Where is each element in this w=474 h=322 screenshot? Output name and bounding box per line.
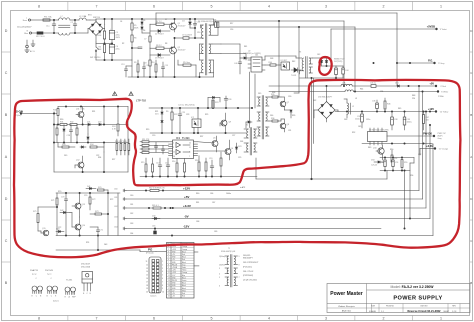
svg-text:C7: C7 — [144, 39, 146, 41]
node +5V a — [429, 82, 445, 88]
cap C71 — [90, 227, 103, 236]
svg-text:TL431: TL431 — [291, 75, 296, 77]
svg-text:L7: L7 — [61, 16, 63, 18]
svg-text:Q10: Q10 — [373, 148, 377, 150]
cap C35 on +5V rail — [370, 82, 376, 87]
vertical parts row — [56, 125, 89, 143]
svg-text:TL494: TL494 — [182, 136, 190, 140]
svg-text:Q12: Q12 — [76, 160, 80, 162]
cap C15 — [161, 62, 168, 77]
startup IC U2 — [248, 57, 265, 72]
svg-text:+5V: +5V — [429, 82, 434, 86]
svg-text:11: 11 — [168, 272, 170, 274]
resistor R24 — [112, 121, 119, 136]
svg-text:C8: C8 — [144, 63, 146, 65]
choke L1A — [341, 82, 436, 87]
red annotation loop (hand drawn marker) — [14, 80, 460, 257]
svg-text:R37: R37 — [200, 136, 203, 138]
snubber D7 — [215, 22, 219, 28]
115/230V selector SW1 — [90, 47, 100, 60]
diode D34 — [371, 160, 383, 167]
svg-text:C36: C36 — [372, 101, 375, 103]
svg-text:14: 14 — [168, 280, 170, 282]
svg-text:R16: R16 — [172, 161, 175, 163]
svg-text:Q15: Q15 — [42, 228, 46, 230]
svg-text:PS-ON: PS-ON — [172, 280, 177, 282]
sec resistor R36 — [269, 118, 281, 122]
svg-text:1: 1 — [168, 246, 169, 248]
cap C65 on -12V — [152, 226, 156, 235]
svg-text:4: 4 — [268, 5, 270, 9]
svg-text:C28: C28 — [67, 135, 70, 137]
PW-OK output wire — [387, 132, 447, 141]
svg-text:R22: R22 — [174, 114, 177, 116]
svg-text:10: 10 — [162, 292, 164, 294]
svg-text:L2: L2 — [352, 106, 354, 108]
wire +5VSB — [331, 28, 437, 30]
svg-text:D40: D40 — [152, 216, 155, 218]
svg-text:Q7,Q8: 2SC4106: Q7,Q8: 2SC4106 — [243, 280, 257, 282]
svg-text:ZD1: ZD1 — [155, 114, 159, 116]
svg-text:220: 220 — [412, 98, 415, 100]
svg-text:12: 12 — [189, 143, 191, 145]
svg-text:PG: PG — [148, 248, 153, 252]
wire rail D — [221, 54, 246, 60]
svg-text:12: 12 — [168, 275, 170, 277]
svg-text:C62: C62 — [114, 206, 117, 208]
mid node wire to voltage selector — [96, 42, 112, 47]
svg-text:R17: R17 — [230, 23, 233, 25]
svg-text:R18: R18 — [195, 160, 198, 162]
sec transistor Q7 — [280, 97, 289, 110]
svg-text:P.G.: P.G. — [428, 59, 433, 63]
svg-text:p-n-p: p-n-p — [32, 274, 36, 276]
svg-text:'11' Orange: '11' Orange — [439, 148, 449, 151]
wire pg left branch — [38, 206, 58, 207]
svg-text:R45: R45 — [398, 108, 401, 110]
svg-text:3: 3 — [325, 5, 327, 9]
svg-text:D22: D22 — [98, 122, 101, 124]
snubber diode D4 — [182, 18, 195, 28]
svg-text:to ATX: to ATX — [240, 186, 246, 189]
T2 coupling diodes D25 — [246, 121, 252, 128]
svg-text:1: 1 — [440, 317, 442, 321]
svg-text:1(Blue): 1(Blue) — [219, 256, 225, 258]
svg-text:D23: D23 — [238, 146, 241, 148]
rail -5V — [114, 217, 430, 221]
rail sec top — [269, 85, 345, 86]
svg-text:D34: D34 — [371, 160, 374, 162]
svg-text:R7 2.2: R7 2.2 — [156, 21, 162, 23]
svg-text:Brwn: Brwn — [23, 19, 27, 22]
svg-text:C50: C50 — [380, 162, 383, 164]
svg-text:C60: C60 — [130, 195, 133, 197]
svg-text:C18: C18 — [165, 163, 168, 165]
svg-text:Q7: Q7 — [287, 102, 290, 104]
svg-text:'6' White: '6' White — [441, 91, 448, 94]
svg-text:R8 2.2: R8 2.2 — [156, 45, 162, 47]
svg-text:R60: R60 — [196, 193, 199, 195]
svg-text:C34: C34 — [380, 91, 383, 93]
svg-text:-5V: -5V — [184, 214, 189, 218]
svg-text:SW 115/230: SW 115/230 — [90, 57, 100, 59]
svg-text:2200u: 2200u — [355, 119, 360, 121]
svg-text:C41: C41 — [255, 55, 258, 57]
diode D20 — [207, 96, 220, 108]
svg-text:IC1: IC1 — [176, 136, 181, 140]
warning triangle 2 — [129, 92, 133, 96]
diode D40 on -5V — [152, 216, 160, 220]
svg-text:D15: D15 — [258, 93, 261, 95]
svg-text:220u: 220u — [116, 49, 120, 51]
svg-text:17: 17 — [146, 281, 148, 283]
transistor Q12 — [75, 156, 84, 172]
svg-text:1: 1 — [162, 261, 163, 263]
svg-text:Red: Red — [182, 296, 185, 298]
svg-text:+12V: +12V — [183, 186, 190, 190]
transistor Q13 — [72, 192, 85, 217]
svg-text:R27: R27 — [112, 159, 115, 161]
mid rail — [150, 132, 246, 133]
dummy resistor R47 — [423, 112, 429, 131]
svg-text:R31: R31 — [60, 122, 63, 124]
standby transformer T3 — [299, 52, 313, 79]
PG node — [146, 244, 173, 255]
snubber cap C40 — [234, 58, 242, 74]
svg-text:Q6: Q6 — [231, 148, 234, 150]
diode D14 on +5V rail — [395, 82, 409, 87]
transistor Q1 2SC3027 — [170, 18, 186, 32]
main transformer T1 — [198, 19, 215, 78]
svg-text:110-220(230)V: 110-220(230)V — [17, 27, 32, 29]
T1 right side stubs to long rails — [212, 21, 221, 77]
svg-text:TL431: TL431 — [66, 280, 73, 282]
resistor R9 — [134, 60, 139, 78]
svg-text:2: 2 — [162, 264, 163, 266]
svg-text:(F12C20C): (F12C20C) — [243, 266, 252, 268]
svg-text:R75: R75 — [33, 211, 36, 213]
svg-text:Black: Black — [182, 285, 186, 287]
svg-text:U2: U2 — [248, 51, 250, 53]
svg-text:R34: R34 — [98, 157, 101, 159]
wiring legend text — [243, 255, 259, 282]
svg-text:C15: C15 — [165, 65, 168, 67]
diode D44 — [56, 229, 64, 233]
svg-text:D43: D43 — [104, 244, 107, 246]
junction +5V wire dots — [373, 62, 411, 63]
svg-text:R44: R44 — [360, 89, 363, 91]
svg-text:2: 2 — [383, 317, 385, 321]
drive transformer T2 — [244, 125, 257, 156]
resistor R51 — [383, 150, 398, 165]
svg-text:D3 FR107: D3 FR107 — [155, 58, 164, 60]
svg-text:D27(D29): D27(D29) — [334, 61, 343, 63]
svg-text:R61: R61 — [196, 202, 199, 204]
svg-text:C9 1u/250V: C9 1u/250V — [182, 35, 193, 37]
filter cap C37 — [355, 112, 363, 129]
pg bottom rail junctions — [79, 235, 80, 236]
svg-text:5: 5 — [219, 277, 220, 279]
feedback parts R/C — [265, 62, 281, 66]
cap C26 — [224, 96, 231, 108]
node +5V b — [437, 91, 448, 94]
bleeder resistor R4 — [97, 43, 106, 60]
svg-text:D6: D6 — [143, 30, 145, 32]
diode D41 — [86, 186, 96, 190]
zener ZD2 — [161, 121, 163, 134]
svg-text:20: 20 — [168, 296, 170, 298]
svg-text:C10: C10 — [197, 32, 200, 34]
svg-text:L3: L3 — [355, 98, 357, 100]
svg-text:4: 4 — [162, 271, 163, 273]
svg-text:C38: C38 — [394, 119, 397, 121]
svg-text:Black: Black — [182, 288, 186, 290]
wire rail C to 5VSB — [221, 44, 240, 58]
svg-text:15: 15 — [173, 152, 175, 154]
svg-text:D1: D1 — [84, 16, 86, 18]
svg-text:2SC3027: 2SC3027 — [178, 26, 186, 28]
svg-text:Q11 C945: Q11 C945 — [76, 109, 84, 111]
half bridge mid node — [174, 37, 183, 38]
svg-text:C63: C63 — [114, 217, 117, 219]
svg-text:A: A — [470, 155, 472, 159]
svg-text:6: 6 — [153, 317, 155, 321]
svg-text:13: 13 — [146, 268, 148, 270]
NTC thermistor THR1 — [32, 32, 59, 38]
svg-text:C31: C31 — [288, 130, 291, 132]
svg-text:C30: C30 — [288, 96, 291, 98]
svg-text:C44: C44 — [345, 70, 348, 72]
transistor Q9 — [220, 113, 231, 133]
svg-text:C1u: C1u — [46, 26, 49, 28]
svg-text:1000u: 1000u — [226, 193, 231, 195]
svg-text:R3: R3 — [99, 33, 101, 35]
svg-text:NTC 5D-9: NTC 5D-9 — [36, 36, 45, 38]
svg-text:10: 10 — [168, 270, 170, 272]
rail +12V — [114, 189, 419, 193]
minus rail top wire — [380, 157, 414, 158]
svg-text:8: 8 — [239, 264, 240, 266]
svg-text:R56: R56 — [410, 175, 413, 177]
svg-text:PW-OK: PW-OK — [423, 132, 432, 136]
rail -12V — [114, 227, 381, 231]
secondary return verticals — [311, 78, 314, 180]
node PS-ON — [14, 110, 58, 118]
node +3.3V — [420, 144, 448, 150]
package drawing 2SC3027 TO-220 — [81, 264, 93, 296]
svg-text:POWER SUPPLY: POWER SUPPLY — [393, 296, 442, 302]
svg-text:3: 3 — [219, 268, 220, 270]
svg-text:14: 14 — [146, 271, 148, 273]
svg-text:C25: C25 — [182, 112, 185, 114]
svg-text:2SC3027: 2SC3027 — [81, 264, 91, 266]
svg-text:R48: R48 — [412, 95, 415, 97]
wire sec feed F — [294, 26, 300, 93]
svg-text:DWG NO: DWG NO — [420, 306, 428, 308]
ground rail secondary — [362, 143, 430, 144]
svg-text:D34: C25-02: D34: C25-02 — [243, 271, 253, 273]
wire L to fuse — [31, 19, 43, 21]
svg-text:150K: 150K — [97, 35, 102, 37]
svg-text:18: 18 — [146, 285, 148, 287]
resistor R73 — [90, 211, 108, 215]
svg-text:Red: Red — [182, 259, 185, 261]
svg-text:7: 7 — [189, 156, 190, 158]
svg-text:R25: R25 — [205, 114, 208, 116]
svg-text:D32: D32 — [313, 100, 316, 102]
svg-text:R73: R73 — [95, 211, 98, 213]
svg-text:R72: R72 — [92, 199, 95, 201]
svg-text:9: 9 — [239, 256, 240, 258]
wire aux rail top — [156, 13, 398, 64]
svg-text:Model: FA-5-2 ver 3.2 250W: Model: FA-5-2 ver 3.2 250W — [391, 285, 435, 289]
primary return bus — [128, 60, 214, 77]
wire sec feed E — [278, 20, 279, 97]
choke L1B — [345, 90, 438, 92]
node +12V — [428, 107, 449, 114]
GND bus — [56, 235, 433, 236]
svg-text:C66: C66 — [210, 193, 213, 195]
warning triangle 1 — [113, 92, 117, 96]
svg-text:'6' Wht: '6' Wht — [438, 95, 444, 98]
vertical supply wires from standby — [250, 72, 256, 128]
svg-text:R42: R42 — [292, 61, 295, 63]
svg-text:IC3 817: IC3 817 — [281, 60, 288, 62]
vertical bundle to output rails — [418, 85, 430, 218]
rectifier diamond D30 — [314, 86, 338, 122]
svg-text:Black: Black — [182, 262, 186, 264]
svg-text:D41: D41 — [87, 186, 90, 188]
svg-text:C13: C13 — [121, 64, 124, 66]
resistor R75 — [33, 207, 39, 231]
svg-text:SHEET: SHEET — [443, 311, 449, 313]
svg-text:9: 9 — [162, 288, 163, 290]
svg-text:R2: R2 — [122, 43, 124, 45]
svg-text:Q14: Q14 — [82, 225, 86, 227]
svg-text:12: 12 — [146, 264, 148, 266]
svg-text:n-p-n: n-p-n — [47, 274, 51, 276]
diode D6 — [141, 27, 150, 33]
filter cap C39 — [403, 112, 412, 131]
svg-text:R7: R7 — [165, 19, 167, 21]
svg-text:C67: C67 — [212, 202, 215, 204]
svg-text:2: 2 — [173, 147, 174, 149]
svg-text:2: 2 — [168, 249, 169, 251]
svg-text:T1 KDM-0067(F)-08: T1 KDM-0067(F)-08 — [198, 21, 215, 23]
ground stub from filter — [31, 40, 35, 46]
svg-text:D4: D4 — [182, 20, 184, 22]
rail +5V — [114, 197, 423, 201]
T1 secondary winding stack — [257, 96, 269, 140]
svg-text:C62: C62 — [130, 213, 133, 215]
pointer wires from table — [194, 252, 199, 266]
svg-text:6: 6 — [153, 5, 155, 9]
svg-text:R36: R36 — [271, 118, 274, 120]
node PW-OK — [428, 59, 444, 65]
svg-text:C35 1u: C35 1u — [370, 82, 376, 84]
svg-text:C45: C45 — [358, 126, 361, 128]
diode D26 — [240, 57, 251, 59]
red circle annotation around standby diode D27 — [319, 57, 332, 75]
resistor R10 — [151, 60, 157, 78]
svg-text:+3.3V: +3.3V — [426, 144, 433, 148]
svg-text:'8' Gray: '8' Gray — [438, 62, 444, 65]
svg-text:R21: R21 — [155, 111, 158, 113]
wire to -12V rail — [404, 170, 405, 229]
svg-text:R6: R6 — [134, 38, 136, 40]
svg-text:R70: R70 — [98, 187, 101, 189]
svg-text:SBL3040PT: SBL3040PT — [243, 258, 254, 260]
svg-text:R65 0.1: R65 0.1 — [152, 205, 159, 207]
lower RC row under IC1 — [141, 156, 214, 177]
svg-text:R52: R52 — [352, 132, 355, 134]
svg-text:R4: R4 — [99, 47, 101, 49]
svg-text:15: 15 — [168, 283, 170, 285]
svg-text:Q13: Q13 — [82, 204, 86, 206]
terminal L — [23, 17, 31, 22]
svg-text:'4' Red: '4' Red — [440, 86, 446, 88]
cap C51 — [392, 158, 399, 171]
svg-text:'9' Violet: '9' Violet — [440, 28, 447, 31]
svg-text:T2: T2 — [246, 125, 248, 127]
svg-text:+5VSB: +5VSB — [427, 25, 435, 29]
bridge + down wire — [104, 18, 105, 28]
svg-text:C61: C61 — [114, 197, 117, 199]
svg-text:bottom: bottom — [53, 300, 59, 303]
Vcc rail — [149, 107, 252, 108]
output choke L2 — [344, 99, 354, 118]
svg-text:R15: R15 — [141, 162, 144, 164]
svg-text:R31: R31 — [92, 111, 95, 113]
svg-text:4: 4 — [219, 274, 220, 276]
package drawing 2SC945 — [45, 270, 58, 298]
svg-text:R11 27K: R11 27K — [142, 139, 150, 141]
wire PW-OK feed — [397, 62, 435, 86]
left vertical wire — [53, 113, 54, 172]
svg-text:16: 16 — [173, 156, 175, 158]
svg-text:Reverse Circuit 02-21-2002: Reverse Circuit 02-21-2002 — [407, 309, 441, 313]
svg-text:D44: D44 — [56, 229, 59, 231]
parts row 2 — [58, 143, 104, 153]
right vertical pg — [107, 190, 118, 236]
svg-text:Blue: Blue — [24, 33, 28, 35]
base cap C7 — [144, 24, 151, 48]
svg-text:R74: R74 — [86, 242, 89, 244]
pg out bus — [56, 236, 156, 252]
svg-text:R62 3.9K/R63 270: R62 3.9K/R63 270 — [149, 188, 165, 190]
svg-text:D19: D19 — [64, 155, 67, 157]
svg-text:KDM-0067(F)-08: KDM-0067(F)-08 — [221, 251, 235, 253]
svg-text:R46: R46 — [387, 104, 390, 106]
bulk capacitor C5 — [109, 18, 120, 44]
svg-text:'10' Yellow: '10' Yellow — [440, 112, 449, 114]
X capacitor C1 — [46, 19, 56, 33]
svg-text:C29: C29 — [238, 157, 241, 159]
cap C44 — [336, 66, 348, 78]
svg-text:5H0165R (or DM311): 5H0165R (or DM311) — [243, 52, 261, 55]
svg-text:R23: R23 — [215, 102, 218, 104]
wires U2 to T3 — [265, 56, 302, 60]
svg-text:1000u: 1000u — [407, 122, 412, 124]
svg-text:4: 4 — [168, 254, 169, 256]
svg-text:C17: C17 — [156, 163, 159, 165]
diode D42 — [60, 210, 72, 227]
standby output node — [322, 29, 332, 67]
filter cap C36 — [372, 100, 378, 112]
svg-text:C65: C65 — [152, 226, 155, 228]
svg-text:AKA Obee: AKA Obee — [342, 310, 352, 313]
bleeder resistor R3 — [97, 29, 106, 44]
